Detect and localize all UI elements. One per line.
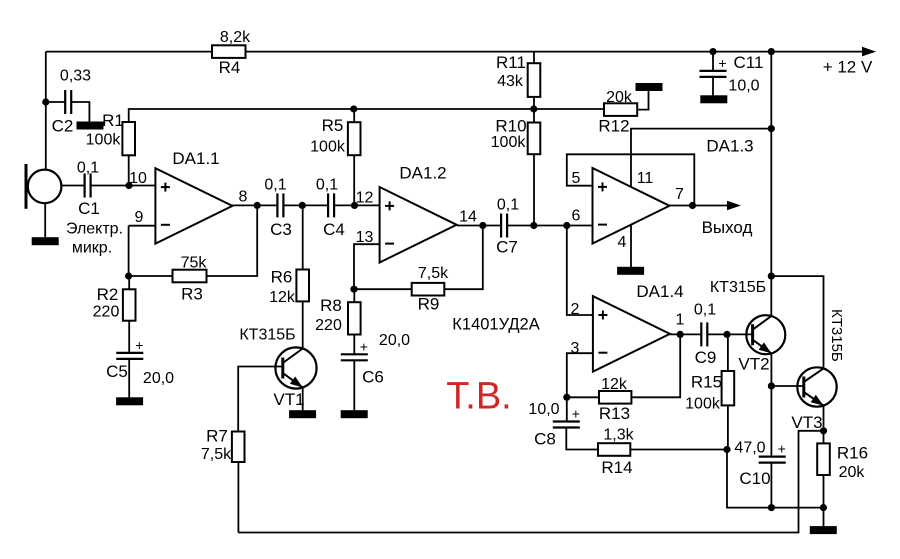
svg-text:R3: R3	[181, 285, 203, 304]
wire feedback bus VT3 emitter to R7	[238, 431, 823, 533]
node C3-C4 / R6 junction	[299, 202, 306, 209]
svg-text:+: +	[360, 338, 368, 354]
ground above R12	[636, 83, 663, 91]
svg-text:R14: R14	[601, 458, 632, 477]
wire C5 to ground	[128, 359, 130, 398]
wire DA1.1 output to C3	[231, 204, 277, 206]
svg-text:+: +	[135, 337, 143, 353]
svg-text:C10: C10	[739, 469, 770, 488]
wire R12 right to ground bar	[637, 89, 648, 109]
resistor R6	[296, 270, 309, 302]
svg-text:10: 10	[129, 170, 147, 187]
svg-text:+ 12 V: + 12 V	[823, 58, 873, 77]
node DA1.4 output junction	[677, 331, 684, 338]
svg-text:8,2k: 8,2k	[220, 29, 251, 46]
svg-text:C5: C5	[106, 362, 128, 381]
resistor R1	[122, 122, 135, 155]
ground below C6	[341, 410, 368, 418]
wire R13 right up to DA1.4 output	[631, 334, 680, 397]
wire node to R13 left	[567, 396, 599, 398]
svg-text:R15: R15	[691, 372, 722, 391]
svg-text:КТ315Б: КТ315Б	[828, 309, 845, 362]
capacitor C1	[83, 174, 85, 198]
wire C8 bottom to R14 left	[566, 428, 598, 450]
svg-text:R2: R2	[97, 285, 119, 304]
wire node to R8 top	[353, 289, 355, 302]
svg-text:0,1: 0,1	[316, 177, 338, 194]
svg-text:0,1: 0,1	[77, 160, 99, 177]
node C9 / R15 junction	[723, 331, 730, 338]
wire pin 6 node down to DA1.4 pin 2	[567, 226, 593, 316]
resistor R9	[412, 283, 445, 296]
node DA1.2 output junction	[479, 222, 486, 229]
wire R5 top lead	[353, 109, 355, 122]
svg-text:+: +	[718, 55, 726, 71]
wire C4 to DA1.2 pin 12	[334, 204, 380, 206]
wire VT3 collector to +12 tap	[771, 276, 823, 368]
svg-text:C2: C2	[52, 117, 74, 136]
svg-text:7,5k: 7,5k	[201, 446, 232, 463]
wire R7 top to VT1 base	[238, 367, 283, 432]
svg-text:VT1: VT1	[273, 390, 304, 409]
svg-text:КТ315Б: КТ315Б	[710, 279, 766, 296]
svg-text:12: 12	[356, 190, 374, 207]
node C11 on +12 rail	[709, 48, 716, 55]
capacitor C3	[276, 193, 278, 217]
svg-text:DA1.3: DA1.3	[706, 136, 753, 155]
svg-text:20,0: 20,0	[143, 370, 174, 387]
svg-text:4: 4	[618, 234, 627, 251]
wire DA1.3 output	[670, 205, 728, 207]
svg-text:220: 220	[315, 317, 342, 334]
capacitor C5	[116, 352, 143, 354]
svg-text:0,1: 0,1	[694, 302, 716, 319]
svg-text:5: 5	[572, 170, 581, 187]
node VT3 collector tap	[768, 273, 775, 280]
resistor R11	[528, 63, 541, 97]
resistor R3	[173, 270, 207, 283]
capacitor C10	[759, 456, 786, 458]
capacitor C6	[341, 353, 368, 355]
wire DA1.4 pin 3 down to C8	[567, 353, 593, 421]
wire microphone to ground	[44, 204, 46, 238]
wire left vertical to microphone	[45, 52, 47, 170]
wire C3 to C4	[283, 204, 328, 206]
wire R1 bottom lead	[128, 155, 130, 185]
wire C11 top lead	[712, 52, 714, 71]
wire R3 right up to DA1.1 output	[207, 205, 258, 276]
node C2 tap junction	[42, 98, 49, 105]
wire DA1.2 output to C7	[457, 225, 501, 227]
wire C1 to DA1.1 pin 10	[91, 185, 156, 187]
svg-text:20k: 20k	[606, 89, 633, 106]
wire VT3 emitter down	[823, 405, 825, 431]
wire DA1.3 pin 5 feedback loop	[567, 154, 695, 205]
wire R10 bottom to pin 6 node	[533, 154, 535, 225]
svg-text:13: 13	[356, 229, 374, 246]
svg-text:DA1.1: DA1.1	[172, 149, 219, 168]
resistor R4	[212, 45, 246, 58]
svg-text:R11: R11	[496, 53, 526, 72]
wire node to R9 left	[354, 288, 412, 290]
transistor VT1	[275, 347, 316, 388]
node R10/R11 on bias rail	[530, 105, 537, 112]
capacitor C4	[327, 193, 329, 217]
svg-text:7,5k: 7,5k	[418, 265, 449, 282]
arrowhead +12 V	[862, 47, 876, 57]
ground bottom right	[810, 526, 837, 534]
svg-text:R5: R5	[322, 116, 344, 135]
wire VT1 emitter to ground	[302, 388, 304, 411]
svg-text:8: 8	[239, 188, 248, 205]
wire top rail +12V to arrow	[246, 51, 863, 53]
op-amp DA1.4	[593, 296, 670, 372]
microphone electret	[28, 170, 62, 204]
svg-text:R8: R8	[320, 296, 342, 315]
ground below DA1.3 pin 4	[617, 267, 644, 275]
svg-text:R1: R1	[102, 111, 124, 130]
wire R14 right to node A	[630, 449, 727, 451]
svg-text:C11: C11	[734, 53, 764, 72]
node pin 6 / DA1.4 branch	[563, 222, 570, 229]
wire lower bus to ground	[823, 508, 825, 527]
op-amp DA1.1	[155, 168, 232, 244]
svg-text:3: 3	[571, 340, 580, 357]
node DA1.3 pin 11 supply tap	[768, 125, 775, 132]
svg-text:К1401УД2А: К1401УД2А	[452, 316, 539, 334]
op-amp DA1.3	[593, 168, 670, 244]
svg-text:VT3: VT3	[791, 413, 822, 432]
svg-text:14: 14	[459, 209, 477, 226]
svg-text:9: 9	[135, 209, 144, 226]
svg-text:220: 220	[93, 304, 120, 321]
wire R16 bottom to lower bus	[823, 475, 825, 508]
node pin 13 / R8 / R9 junction	[350, 286, 357, 293]
node pin 3 / R13 junction	[563, 394, 570, 401]
svg-text:микр.: микр.	[72, 240, 112, 257]
wire node to R16 top	[823, 431, 825, 444]
svg-text:12k: 12k	[269, 289, 296, 306]
svg-text:R13: R13	[599, 404, 630, 423]
svg-text:12k: 12k	[601, 376, 628, 393]
ground below C11	[700, 95, 727, 103]
node R2/R3 feedback junction	[125, 272, 132, 279]
wire to VT3 base	[771, 385, 803, 387]
node DA1.3 output junction	[689, 202, 696, 209]
wire +12 vertical rail to VT2 collector	[770, 52, 772, 317]
svg-text:DA1.4: DA1.4	[636, 282, 683, 301]
capacitor C9	[700, 322, 702, 346]
svg-text:C7: C7	[496, 238, 518, 257]
svg-text:0,33: 0,33	[60, 68, 91, 85]
node R5 top on bias rail	[350, 105, 357, 112]
wire R9 right up to DA1.2 output	[444, 226, 483, 290]
arrowhead output	[727, 201, 741, 211]
svg-text:C4: C4	[323, 220, 345, 239]
ground below microphone	[32, 237, 59, 245]
svg-text:Электр.: Электр.	[66, 221, 123, 238]
wire R15 bottom to node A	[727, 405, 729, 449]
svg-text:0,1: 0,1	[264, 177, 286, 194]
wire node A down and right along lower bus	[727, 450, 823, 508]
capacitor C2	[64, 90, 66, 114]
wire C7 to DA1.3 pin 6	[507, 225, 592, 227]
svg-text:C6: C6	[362, 368, 384, 387]
svg-text:100k: 100k	[310, 139, 346, 156]
resistor R8	[348, 302, 361, 334]
capacitor C7	[500, 214, 502, 238]
resistor R15	[722, 371, 735, 405]
capacitor C11	[700, 70, 727, 72]
svg-text:100k: 100k	[491, 134, 527, 151]
svg-text:R6: R6	[271, 268, 293, 287]
node C10 bottom junction	[768, 504, 775, 511]
wire node down to R6 top	[302, 205, 304, 269]
svg-text:Т.В.: Т.В.	[446, 375, 511, 417]
node VT2 emitter / VT3 base	[768, 382, 775, 389]
svg-text:47,0: 47,0	[734, 440, 765, 457]
wire DA1.2 pin 13 down	[354, 244, 380, 289]
resistor R5	[348, 122, 361, 155]
svg-text:R9: R9	[418, 294, 440, 313]
wire DA1.3 pin 11 to +12	[631, 129, 771, 187]
wire R8 bottom to C6	[353, 335, 355, 355]
svg-text:C3: C3	[270, 220, 292, 239]
svg-text:C8: C8	[534, 430, 556, 449]
resistor R10	[528, 123, 541, 155]
svg-text:R12: R12	[598, 117, 629, 136]
wire microphone to C1	[62, 185, 85, 187]
node pin 12 / R5 bottom junction	[351, 202, 358, 209]
wire C6 to ground	[353, 360, 355, 410]
resistor R13	[599, 391, 631, 404]
wire R2 bottom to C5	[128, 321, 130, 353]
svg-text:100k: 100k	[685, 396, 721, 413]
svg-text:20k: 20k	[839, 464, 866, 481]
wire node to R3 left	[129, 275, 173, 277]
svg-text:10,0: 10,0	[528, 401, 559, 418]
wire node to R2 top	[128, 276, 130, 289]
resistor R12	[604, 103, 637, 116]
node R14 / R15 junction	[723, 446, 730, 453]
svg-text:1: 1	[676, 312, 685, 329]
node VT3 emitter / R16 junction	[820, 427, 827, 434]
wire DA1.4 output to C9	[670, 333, 701, 335]
wire R15 top lead	[727, 334, 729, 371]
wire R5 bottom to pin 12	[353, 155, 355, 205]
wire C11 bottom to ground	[712, 77, 714, 96]
wire C10 bottom to lower bus	[770, 463, 772, 508]
resistor R14	[598, 443, 630, 456]
svg-text:1,3k: 1,3k	[603, 427, 634, 444]
wire bias rail from R1 top to R12	[129, 109, 604, 122]
svg-text:+: +	[572, 406, 580, 422]
svg-text:2: 2	[571, 301, 580, 318]
svg-text:75k: 75k	[181, 255, 208, 272]
wire to C2 left plate	[46, 101, 65, 103]
capacitor C8	[553, 420, 580, 422]
wire top rail left of R4	[46, 51, 212, 53]
svg-text:43k: 43k	[497, 73, 524, 90]
svg-text:R4: R4	[219, 58, 241, 77]
svg-text:R16: R16	[837, 444, 868, 463]
svg-text:11: 11	[637, 170, 654, 187]
svg-text:Выход: Выход	[702, 218, 753, 237]
transistor VT3	[797, 367, 836, 406]
node R16 bottom junction	[820, 504, 827, 511]
node pin 10 / R1 junction	[125, 182, 132, 189]
svg-text:C1: C1	[78, 199, 100, 218]
ground below C5	[116, 397, 143, 405]
wire C2 right plate to ground	[71, 102, 89, 122]
wire DA1.1 pin 9 input	[129, 225, 156, 227]
svg-text:6: 6	[572, 208, 581, 225]
wire VT2 emitter down through VT3 base tap to C10	[770, 353, 772, 456]
node DA1.1 output junction	[254, 202, 261, 209]
svg-text:C9: C9	[695, 348, 717, 367]
wire pin 9 down to feedback node	[128, 226, 130, 276]
transistor VT2	[746, 315, 785, 354]
svg-text:10,0: 10,0	[728, 78, 759, 95]
wire R6 bottom to VT1 collector	[302, 301, 304, 349]
svg-text:КТ315Б: КТ315Б	[239, 327, 295, 344]
svg-text:R7: R7	[206, 427, 228, 446]
wire bottom rail up to R7	[237, 462, 239, 533]
svg-text:DA1.2: DA1.2	[399, 163, 446, 182]
wire R11 top lead	[533, 52, 535, 64]
wire DA1.3 pin 4 to ground	[630, 224, 632, 267]
svg-text:VT2: VT2	[738, 355, 769, 374]
svg-text:0,1: 0,1	[497, 197, 519, 214]
node +12 vertical tap	[768, 48, 775, 55]
node R10 bottom junction	[530, 222, 537, 229]
svg-text:7: 7	[675, 186, 684, 203]
op-amp DA1.2	[380, 187, 457, 263]
ground below C2	[77, 122, 104, 130]
svg-text:100k: 100k	[86, 131, 122, 148]
svg-text:+: +	[778, 441, 786, 457]
wire C9 to VT2 base	[707, 333, 752, 335]
svg-text:20,0: 20,0	[379, 332, 410, 349]
resistor R16	[817, 443, 830, 475]
wire R11 bottom to R10 top	[533, 97, 535, 123]
ground below VT1	[289, 410, 316, 418]
resistor R7	[232, 432, 245, 463]
svg-text:R10: R10	[495, 117, 526, 136]
resistor R2	[123, 289, 136, 320]
